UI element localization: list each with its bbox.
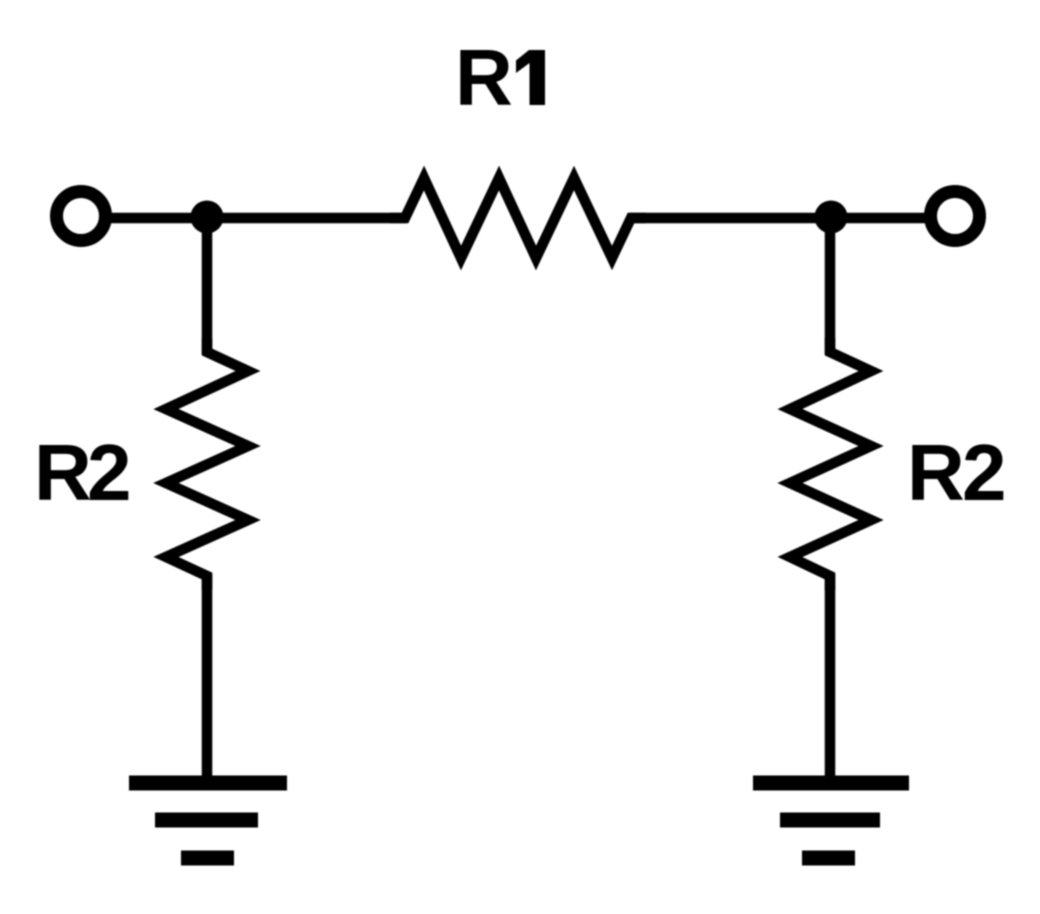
wire: R1 right lead to node B: [630, 213, 834, 224]
label R1: [455, 33, 545, 122]
node A junction dot: [191, 201, 224, 234]
svg-text:R: R: [455, 33, 513, 122]
resistor R2 (left): [166, 338, 248, 590]
label R2 (right): [907, 428, 1007, 517]
ground (right): [753, 783, 909, 858]
node B junction dot: [815, 201, 848, 234]
wire: R2 right bottom to ground: [825, 574, 836, 781]
terminal TP2 (right port): [931, 192, 980, 241]
resistor R2 (right): [790, 338, 871, 590]
wire: node B to right terminal: [828, 213, 926, 224]
terminal TP1 (left port): [57, 192, 106, 241]
wire: node A down to R2 left: [202, 212, 213, 354]
wire: node A to R1 left lead: [204, 213, 406, 224]
wire: node B down to R2 right: [825, 212, 836, 354]
svg-text:2: 2: [87, 428, 132, 517]
resistor R1: [390, 178, 646, 258]
svg-text:2: 2: [962, 428, 1007, 517]
svg-text:R: R: [907, 428, 965, 517]
ground (left): [129, 783, 287, 858]
wire: left terminal to node A: [110, 213, 210, 224]
wire: R2 left bottom to ground: [202, 574, 213, 781]
svg-text:R: R: [34, 428, 92, 517]
label R2 (left): [34, 428, 132, 517]
